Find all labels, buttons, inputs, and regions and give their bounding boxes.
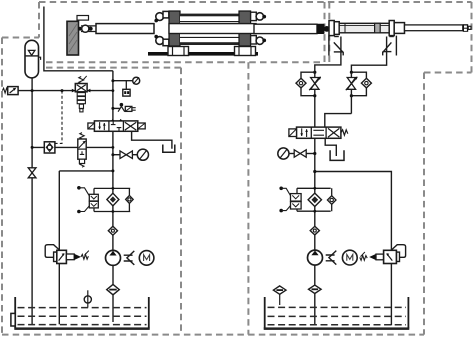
breather xyxy=(273,286,286,305)
relief branch line xyxy=(59,170,113,172)
relief valve right unit xyxy=(360,245,406,264)
rear mounting plate xyxy=(389,21,394,36)
check valve FC2 xyxy=(361,78,371,88)
mounting foot right xyxy=(235,47,256,56)
junction dot xyxy=(350,71,353,74)
relief drain to tank xyxy=(58,264,60,325)
base plate bar xyxy=(148,52,258,56)
supply pipe to cylinder xyxy=(44,7,113,71)
tank symbol xyxy=(163,145,175,153)
junction dot xyxy=(112,146,115,149)
junction dot xyxy=(31,146,34,149)
return filter right xyxy=(308,193,321,206)
junction dot xyxy=(111,107,114,110)
flow control 2 check branch xyxy=(351,72,366,96)
right unit box left xyxy=(247,62,249,334)
pump left xyxy=(106,250,121,265)
relief valve left unit xyxy=(45,245,89,264)
front mounting plate 2 xyxy=(334,22,339,35)
piston rod left xyxy=(96,24,154,34)
junction dot xyxy=(313,170,316,173)
pipe cylinder rod side xyxy=(351,52,386,73)
piston rod right cylinder xyxy=(405,25,463,31)
pump right xyxy=(308,250,323,265)
pilot check valve xyxy=(44,142,55,153)
outer boundary notch vertical xyxy=(38,2,40,38)
right gland nuts xyxy=(256,13,266,45)
main line right vertical xyxy=(314,72,316,250)
motor right xyxy=(342,250,357,265)
junction dot xyxy=(313,94,316,97)
suction line right xyxy=(314,265,316,325)
pressure gauge right xyxy=(278,148,289,159)
left gland nuts top xyxy=(154,11,169,22)
outer boundary bottom xyxy=(2,334,424,336)
cylinder barrel xyxy=(180,14,239,45)
left gland flange xyxy=(169,11,180,46)
pilot line dashed xyxy=(55,91,62,144)
flow control 1 check branch xyxy=(301,72,315,96)
left unit box top xyxy=(46,67,181,69)
wall mount block xyxy=(67,21,79,55)
check valve left xyxy=(108,226,117,235)
mounting foot left xyxy=(168,47,189,56)
throttle FC1 xyxy=(309,77,321,91)
coupling left xyxy=(124,251,135,265)
tank symbol right xyxy=(330,150,344,160)
check valve line xyxy=(32,146,113,148)
outer boundary left xyxy=(1,38,3,335)
return filter left xyxy=(107,193,119,206)
accumulator drain line xyxy=(31,78,33,325)
rod end fitting xyxy=(463,24,471,32)
junction dot xyxy=(31,89,34,92)
rod clevis joint xyxy=(78,25,96,32)
level gauge xyxy=(84,290,91,307)
throttle FC2 xyxy=(346,77,358,91)
outer boundary notch horizontal xyxy=(2,37,39,39)
pilot valve V2 xyxy=(78,133,86,168)
outer boundary step right xyxy=(424,72,472,74)
left gland nuts bottom xyxy=(154,35,169,46)
pressure line horizontal xyxy=(18,90,113,92)
pipe cylinder cap side xyxy=(315,52,341,72)
junction dot xyxy=(350,94,353,97)
gauge branch right xyxy=(306,153,315,155)
suction line left xyxy=(112,265,114,322)
tank left xyxy=(11,297,150,330)
right gland flange xyxy=(239,11,251,46)
left unit box right xyxy=(180,68,182,335)
relief drain right xyxy=(390,264,392,326)
check valve right xyxy=(310,226,319,235)
right gland plate xyxy=(251,12,257,20)
tank return right xyxy=(325,138,336,156)
motor left xyxy=(139,251,154,266)
junction dot xyxy=(61,89,64,92)
directional valve 4/2 right xyxy=(289,127,348,138)
clogging indicator right xyxy=(279,187,301,213)
rod end black tip xyxy=(317,24,330,34)
pressure gauge small xyxy=(133,77,140,84)
accumulator shutoff valve xyxy=(28,168,36,178)
pressure gauge main xyxy=(137,149,148,160)
bracket plate above wall mount xyxy=(77,16,89,21)
air bleed valve xyxy=(118,103,136,112)
check valve FC1 xyxy=(296,78,306,88)
outer boundary right lower xyxy=(423,73,425,335)
filter assembly right xyxy=(297,187,331,213)
shutoff valve branch xyxy=(113,154,120,156)
outer boundary right upper xyxy=(471,2,473,73)
gauge branch line xyxy=(113,80,133,82)
bypass check valve right xyxy=(327,188,336,211)
pressure switch xyxy=(123,81,130,96)
junction dot xyxy=(111,169,114,172)
relief valve left xyxy=(2,87,18,95)
shutoff valve right xyxy=(289,150,306,157)
junction dot xyxy=(111,153,114,156)
clogging indicator left xyxy=(77,186,98,213)
piston rod right xyxy=(254,24,317,33)
junction dot xyxy=(111,79,114,82)
line FC2 xyxy=(350,72,352,113)
outer boundary top xyxy=(39,1,472,3)
main pressure line vertical xyxy=(112,71,114,251)
shutoff valve xyxy=(120,151,137,159)
suction strainer right xyxy=(309,285,322,293)
B line to valve xyxy=(325,114,352,128)
machine separation line xyxy=(46,61,324,63)
filter assembly left xyxy=(94,187,130,213)
junction dot xyxy=(313,71,316,74)
air bleed branch xyxy=(113,107,120,109)
front mounting plate 1 xyxy=(329,21,334,36)
accumulator xyxy=(25,40,41,78)
relief branch right xyxy=(315,172,392,251)
unloading valve V1 xyxy=(72,76,91,112)
tank return line xyxy=(132,131,172,148)
machine divider right xyxy=(328,2,330,62)
suction strainer left xyxy=(107,284,120,294)
right bracket right cylinder xyxy=(383,36,397,56)
directional valve 4/3 xyxy=(88,119,145,131)
coupling right xyxy=(326,251,337,265)
junction dot xyxy=(112,89,115,92)
cylinder head block xyxy=(394,23,404,34)
tank right xyxy=(264,297,410,330)
barrel right cylinder xyxy=(339,23,389,33)
machine divider left xyxy=(324,2,326,62)
left bracket right cylinder xyxy=(329,36,343,56)
relief drain line xyxy=(58,171,60,251)
bypass check valve left xyxy=(126,188,134,211)
piston rod through barrel xyxy=(169,24,256,34)
junction dot xyxy=(313,152,316,155)
